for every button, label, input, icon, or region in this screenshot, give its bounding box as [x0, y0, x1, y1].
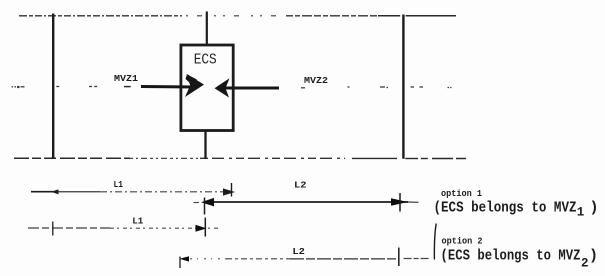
- svg-text:(ECS belongs to MVZ: (ECS belongs to MVZ: [441, 248, 581, 265]
- option 1 caption: [434, 200, 599, 220]
- svg-text:): ): [589, 248, 598, 265]
- svg-text:ECS: ECS: [194, 51, 217, 68]
- dimension L1 option2: left tick: [52, 222, 54, 236]
- feeder stub above ECS box: [206, 12, 208, 45]
- dimension L1 option2: line: [28, 227, 219, 229]
- svg-text:L2: L2: [294, 180, 307, 190]
- dimension L2 option1: left tick: [204, 198, 206, 215]
- left wall (zone boundary): [52, 14, 54, 159]
- dimension L2 option1: left arrowhead: [201, 198, 214, 207]
- dimension L1 option1: left arrowhead: [51, 189, 59, 194]
- top boundary dash-dot line: [19, 15, 456, 17]
- svg-text:(ECS belongs to MVZ: (ECS belongs to MVZ: [434, 200, 577, 217]
- bracket before option 2: [434, 224, 436, 260]
- dimension L2 option1: right tick: [399, 193, 401, 212]
- ECS box: [181, 45, 233, 131]
- arrow from MVZ2 into ECS: [215, 78, 280, 97]
- dimension L1 option2: right tick: [204, 218, 206, 237]
- option 2 caption: [441, 248, 599, 271]
- svg-text:MVZ1: MVZ1: [114, 73, 138, 84]
- svg-text:option 2: option 2: [442, 237, 483, 247]
- svg-text:L1: L1: [114, 180, 124, 190]
- dimension L1 option2: right arrowhead: [196, 225, 207, 232]
- dimension L2 option1: line: [204, 201, 408, 203]
- svg-text:option 1: option 1: [441, 189, 483, 199]
- dimension L2 option2: left arrowhead: [180, 256, 190, 261]
- dimension L2 option1: right arrowhead: [391, 198, 408, 206]
- dimension L1 option1: line: [31, 191, 224, 193]
- bottom boundary line: [14, 157, 466, 159]
- dimension L1 option1: right arrowhead: [223, 188, 235, 195]
- right wall (zone boundary): [402, 15, 404, 159]
- dimension L2 option2: left tick: [179, 257, 181, 269]
- arrow from MVZ1 into ECS: [141, 74, 204, 97]
- feeder stub below ECS box: [204, 130, 206, 159]
- centre dash-dot line: [12, 87, 452, 88]
- svg-text:): ): [590, 200, 599, 217]
- svg-text:1: 1: [577, 206, 585, 220]
- dimension L2 option2: line: [190, 258, 430, 260]
- svg-text:2: 2: [581, 257, 589, 271]
- svg-text:L1: L1: [132, 216, 144, 226]
- svg-text:MVZ2: MVZ2: [304, 75, 328, 86]
- dimension L2 option2: right tick: [398, 248, 400, 267]
- svg-text:L2: L2: [292, 247, 305, 257]
- dimension L1 option1: right tick: [231, 183, 233, 197]
